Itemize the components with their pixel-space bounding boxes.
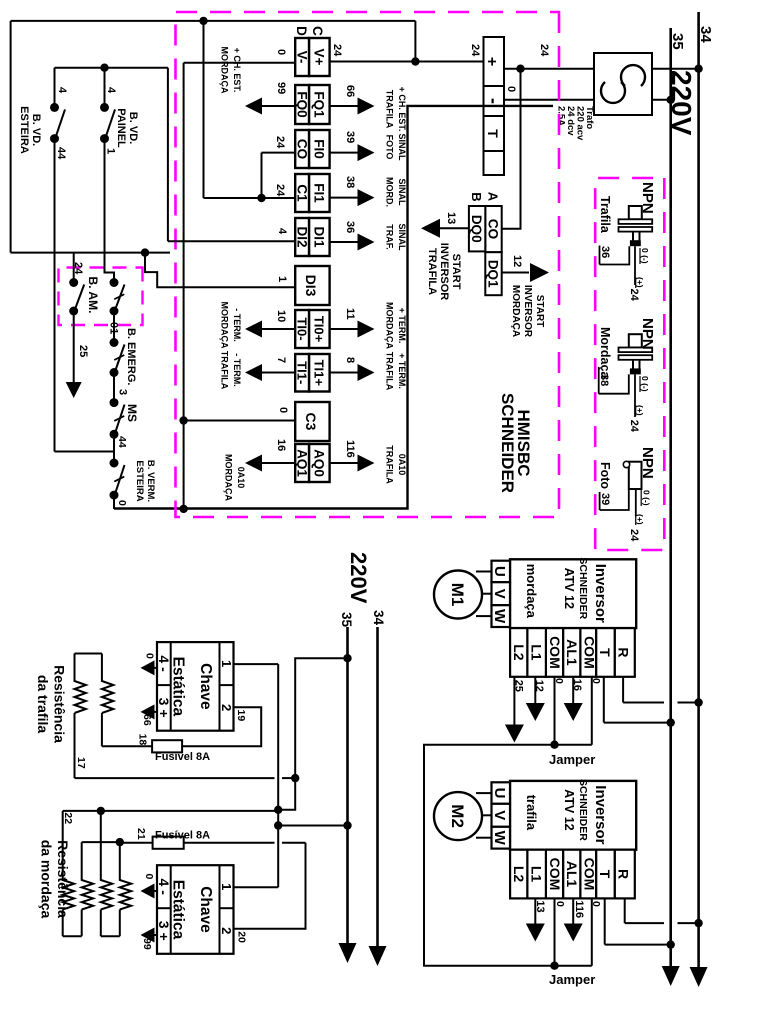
svg-text:4: 4: [56, 87, 68, 94]
svg-text:T: T: [597, 648, 613, 657]
svg-text:17: 17: [75, 757, 87, 769]
wire bus 34 (220V line): [697, 12, 700, 975]
svg-text:TI0+: TI0+: [312, 316, 327, 343]
arrow end bus 34 lower: [369, 946, 387, 966]
fuse F2 Fusivel 8A: [153, 837, 184, 849]
svg-text:0: 0: [554, 901, 566, 907]
svg-text:0: 0: [590, 678, 602, 684]
junction 24 to CO block: [516, 65, 524, 73]
svg-text:ATV 12: ATV 12: [562, 789, 576, 830]
svg-text:TRAFILA: TRAFILA: [385, 352, 395, 391]
svg-text:MORDAÇA: MORDAÇA: [385, 302, 395, 349]
svg-text:da trafila: da trafila: [35, 675, 51, 734]
svg-text:220V: 220V: [346, 552, 371, 604]
svg-text:12: 12: [533, 680, 545, 692]
junction feed on bus 35 lower: [343, 654, 351, 662]
dashed box B.AM: [59, 268, 143, 326]
wire fusivel1 to resistor: [102, 745, 152, 747]
wire DI3 node 1 jog: [145, 253, 295, 288]
svg-text:Fusível 8A: Fusível 8A: [155, 830, 210, 842]
svg-text:1: 1: [105, 148, 117, 154]
svg-text:Estática: Estática: [170, 657, 187, 717]
inverter U1 Schneider ATV12 mordaca: [491, 557, 636, 676]
wire inv1 T riser: [604, 722, 671, 724]
cell FQ0: [295, 85, 309, 124]
svg-text:D: D: [294, 26, 309, 36]
arrow signal 11: [358, 321, 375, 338]
wire 24 to B.AM contact: [73, 253, 75, 283]
resistor R trafila element 1: [75, 654, 86, 714]
wire chave2 pin1 riser: [234, 886, 279, 888]
svg-text:0A10: 0A10: [236, 467, 246, 489]
fuse F1 Fusivel 8A: [152, 740, 182, 752]
motor M2: [434, 792, 492, 840]
svg-text:A: A: [486, 192, 501, 202]
svg-text:DQ1: DQ1: [486, 260, 501, 288]
wire sensor3 to tag 39: [600, 489, 629, 510]
sensor NPN proximity Trafila: [619, 182, 657, 246]
svg-text:+: +: [483, 57, 500, 66]
svg-text:1: 1: [219, 883, 234, 890]
wire chave pin1 common line: [277, 664, 279, 887]
svg-text:24: 24: [331, 44, 343, 57]
arrow start inversor mordaca: [530, 263, 549, 282]
svg-text:SCHNEIDER: SCHNEIDER: [498, 393, 517, 493]
svg-text:Trafila: Trafila: [598, 196, 612, 234]
wire inv2 R riser lower: [625, 922, 664, 924]
wire inv2 L1 13: [534, 898, 536, 924]
solid-state relay Chave Estatica mordaca: [156, 865, 234, 954]
svg-text:44: 44: [55, 147, 67, 160]
arrow 25: [505, 725, 524, 743]
svg-text:1: 1: [276, 276, 288, 282]
svg-text:T: T: [485, 129, 501, 138]
dashed box HMISBC SCHNEIDER area: [176, 12, 560, 517]
svg-text:12: 12: [511, 255, 523, 267]
svg-text:M2: M2: [448, 804, 467, 828]
cell DQ1: [485, 252, 501, 295]
arrow output 3+ of solid-state relay Chave Estatica mordaca: [154, 934, 157, 936]
wire V+ 24 riser to strip: [330, 61, 484, 63]
wire bus 35 lower section: [346, 627, 349, 954]
svg-text:C1: C1: [295, 184, 310, 202]
svg-text:FQ0: FQ0: [295, 91, 310, 117]
svg-text:+ CH. EST.: + CH. EST.: [232, 48, 242, 93]
switch B.AM a: [69, 278, 84, 316]
wire node 4 run: [167, 68, 169, 242]
cell DI2: [295, 218, 309, 256]
svg-text:18: 18: [137, 734, 149, 746]
arrow signal 25: [66, 382, 82, 398]
switch B.AM b: [110, 278, 125, 316]
arrow signal 16: [245, 455, 262, 472]
wire sensor3 signal: [635, 489, 637, 516]
wire inv1 R riser lower: [623, 702, 664, 704]
svg-text:V+: V+: [312, 49, 327, 66]
junction inv1 T on bus 35: [667, 718, 675, 726]
inverter U2 Schneider ATV12 trafila: [491, 779, 636, 898]
svg-text:L1: L1: [528, 644, 544, 661]
wire branch 35b to chave line: [278, 825, 347, 827]
wire C3 to 0V rail: [184, 420, 296, 422]
wire chain end to 0V: [113, 495, 115, 509]
wire bridge m1-m2: [63, 935, 82, 937]
svg-text:U: U: [491, 788, 508, 799]
sensor NPN photo Foto: [623, 447, 656, 489]
svg-text:SINAL: SINAL: [397, 224, 407, 252]
svg-text:(+): (+): [635, 514, 645, 525]
svg-text:ATV 12: ATV 12: [562, 568, 576, 609]
svg-text:AQ1: AQ1: [295, 449, 310, 477]
wire 44 riser: [55, 451, 115, 453]
wire CO to C1 junction: [261, 153, 263, 198]
wire trafo primary/24V to + terminal: [504, 68, 699, 70]
arrow signal 38: [358, 189, 375, 206]
svg-text:24: 24: [628, 529, 640, 542]
svg-text:B. AM.: B. AM.: [86, 277, 100, 314]
wire + CH. EST. MORDAÇA signal 99: [262, 105, 296, 107]
svg-text:0: 0: [553, 678, 565, 684]
svg-text:FQ1: FQ1: [312, 91, 327, 118]
svg-text:24: 24: [274, 136, 286, 149]
junction on bus 35: [667, 96, 675, 104]
wire chave2 pin2 upper: [234, 843, 306, 929]
junction 24 net: [411, 57, 419, 65]
wire + CH. EST. TRAFILA signal 66: [330, 105, 358, 107]
arrow signal 39: [358, 144, 375, 161]
svg-text:99: 99: [141, 938, 153, 950]
wire - TERM. MORDAÇA signal 10: [262, 328, 296, 330]
svg-text:L1: L1: [528, 866, 544, 883]
svg-text:66: 66: [141, 714, 153, 726]
arc transformer winding 2: [601, 82, 625, 103]
cell TI1-: [295, 354, 309, 392]
wire SINAL FOTO signal 39: [330, 152, 358, 154]
switch MS: [110, 398, 125, 439]
wire tag 36: [599, 246, 601, 265]
svg-text:Trafo: Trafo: [584, 106, 595, 129]
svg-text:Estática: Estática: [170, 880, 187, 940]
wire bus 34 lower section: [376, 627, 379, 957]
wire fusivel2 feed upper: [282, 842, 306, 844]
svg-text:0: 0: [505, 86, 517, 92]
svg-text:35: 35: [339, 612, 354, 628]
svg-text:SINAL: SINAL: [397, 134, 407, 162]
arrow signal 7: [245, 364, 262, 381]
wire node 44 to B.VERM: [113, 434, 115, 463]
svg-text:MORDAÇA: MORDAÇA: [220, 302, 230, 349]
arrow end bus 35 lower: [339, 943, 357, 963]
wire 17 riser lower: [75, 777, 275, 779]
wire inv1 AL1 16: [572, 677, 574, 704]
wire node 01: [113, 311, 115, 343]
arrow end of bus 34: [690, 967, 708, 987]
svg-text:10: 10: [275, 310, 287, 322]
svg-text:FI1: FI1: [312, 183, 327, 203]
svg-text:V-: V-: [295, 51, 310, 64]
wire 24 bottom run: [10, 21, 12, 253]
arrow 16: [564, 703, 583, 721]
svg-text:66: 66: [344, 85, 356, 97]
wire inv1 COM bend: [555, 744, 592, 746]
wire DQ0 signal 13: [437, 227, 469, 229]
svg-text:0 (-): 0 (-): [640, 248, 650, 264]
arrow 12: [526, 703, 545, 721]
wire 24 drop: [204, 197, 262, 199]
wire CO 24: [262, 152, 296, 154]
arrow 116: [564, 924, 583, 942]
wire 24 branch to rail: [203, 21, 205, 198]
wire inv1 R: [622, 677, 624, 703]
wire sensor2 to tag 38: [599, 374, 629, 393]
svg-text:3: 3: [117, 389, 129, 395]
svg-text:MS: MS: [125, 404, 139, 422]
junction jamper 2: [550, 962, 558, 970]
svg-text:TRAFILA: TRAFILA: [426, 248, 438, 295]
switch S2 B.VD. PAINEL: [100, 103, 115, 143]
wire tag 38: [598, 367, 600, 394]
svg-text:U: U: [491, 566, 508, 577]
svg-text:TRAFILA: TRAFILA: [220, 351, 230, 390]
svg-text:TI1-: TI1-: [295, 361, 310, 384]
svg-text:B: B: [469, 192, 484, 201]
svg-text:B. VD.: B. VD.: [127, 112, 139, 144]
sensor NPN proximity Mordaca: [619, 318, 657, 374]
wire tag 39: [599, 492, 601, 510]
cell DI3: [295, 266, 329, 305]
wire fusivel2 out: [120, 842, 153, 844]
wire jamper link COM-COM: [424, 745, 555, 966]
svg-text:Jamper: Jamper: [549, 972, 595, 987]
arrow output 4- of solid-state relay Chave Estatica trafila: [154, 667, 157, 669]
wire + TERM. TRAFILA signal 8: [330, 372, 358, 374]
arrow end of bus 35: [662, 966, 680, 986]
wire resistor trafila left bridge: [75, 653, 102, 655]
arrow 13: [526, 924, 545, 942]
switch B. VERM. ESTEIRA: [110, 459, 125, 500]
junction on bus 34: [694, 65, 702, 73]
cell DI1: [309, 218, 330, 256]
svg-text:DI1: DI1: [312, 226, 327, 248]
wire sensor1 signal: [634, 246, 636, 285]
wire inv2 COM bend: [555, 965, 592, 967]
svg-text:Fusível 8A: Fusível 8A: [155, 751, 210, 763]
svg-text:COM: COM: [547, 636, 563, 669]
svg-text:B. VD.: B. VD.: [30, 114, 42, 146]
svg-text:B. VERM.: B. VERM.: [145, 460, 156, 502]
svg-text:0A10: 0A10: [397, 454, 407, 476]
svg-text:44: 44: [116, 436, 128, 448]
wire inv2 AL1 116: [572, 898, 574, 924]
resistor R mordaca element 2: [82, 842, 93, 909]
wire bridge m3-m4: [101, 935, 120, 937]
wire SINAL TRAF. signal 36: [330, 241, 358, 243]
wire DQ1 signal 12: [502, 272, 529, 274]
svg-text:Inversor: Inversor: [592, 785, 609, 844]
svg-text:22: 22: [62, 812, 74, 824]
svg-text:0: 0: [143, 874, 155, 880]
wire inv1 T: [603, 677, 605, 723]
svg-text:COM: COM: [581, 636, 597, 669]
svg-text:ESTEIRA: ESTEIRA: [134, 460, 145, 501]
svg-text:2: 2: [219, 704, 234, 711]
arrow start inversor trafila: [421, 219, 440, 238]
arrow signal 66: [358, 98, 375, 115]
arc transformer winding 1: [621, 65, 645, 86]
cell C1: [295, 174, 309, 212]
wire inv1 L2 25: [513, 677, 515, 725]
svg-text:01: 01: [108, 322, 120, 334]
svg-text:trafila: trafila: [524, 795, 539, 831]
svg-text:24 dcv: 24 dcv: [565, 106, 576, 136]
svg-text:NPN: NPN: [639, 447, 656, 479]
wire 17 riser upper: [282, 777, 295, 779]
wire 0V rail: [183, 63, 185, 509]
svg-text:36: 36: [599, 246, 611, 258]
svg-text:C: C: [310, 26, 325, 36]
svg-text:39: 39: [344, 131, 356, 143]
wire node 4 to switches: [55, 67, 168, 69]
wire fusivel2 feed lower: [184, 842, 275, 844]
svg-text:V: V: [491, 589, 508, 599]
wire R trafila 2 to fusivel: [101, 713, 103, 746]
svg-text:COM: COM: [581, 858, 597, 891]
svg-text:0: 0: [590, 901, 602, 907]
svg-text:AL1: AL1: [564, 639, 580, 666]
svg-text:- TERM.: - TERM.: [232, 308, 242, 342]
junction inv2 R on bus 34: [694, 919, 702, 927]
svg-text:116: 116: [344, 440, 356, 458]
svg-text:+ TERM.: + TERM.: [397, 308, 407, 344]
wire trafo 0V to - terminal: [504, 99, 671, 101]
svg-text:da mordaça: da mordaça: [39, 840, 55, 919]
svg-text:COM: COM: [547, 858, 563, 891]
cell TI1+: [309, 354, 330, 392]
cell V+: [309, 38, 330, 76]
transformer T1 Trafo 220/24: [594, 53, 652, 115]
arrow signal 36: [358, 234, 375, 251]
junction branch on bus 35 lower: [343, 821, 351, 829]
svg-text:4: 4: [105, 87, 117, 94]
wire 24 branch left: [414, 21, 416, 62]
svg-text:34: 34: [697, 26, 714, 43]
svg-text:1: 1: [219, 660, 234, 667]
cell FQ1: [309, 85, 330, 124]
wire inv2 COM lower: [554, 898, 556, 965]
svg-text:0 (-): 0 (-): [640, 376, 650, 392]
wire R trafila 1 to 17: [74, 713, 76, 778]
arrow signal 99: [245, 98, 262, 115]
svg-text:SCHNEIDER: SCHNEIDER: [577, 557, 589, 619]
arrow output 4- of solid-state relay Chave Estatica mordaca: [154, 890, 157, 892]
wire bus 35 (220V line): [669, 28, 672, 972]
svg-text:NPN: NPN: [639, 318, 656, 350]
junction DI3 on 24 riser: [141, 248, 149, 256]
cell AQ0: [309, 444, 330, 482]
wire inv1 COM lower: [554, 677, 556, 745]
svg-text:-: -: [484, 98, 504, 104]
junction 17 on 35b feed: [291, 774, 299, 782]
wire inv2 T riser: [605, 944, 671, 946]
resistor R trafila element 2: [102, 654, 113, 714]
svg-text:TRAF.: TRAF.: [385, 224, 395, 250]
wire - TERM. TRAFILA signal 7: [262, 372, 296, 374]
junction 0V rail end: [179, 505, 187, 513]
cell FI1: [309, 174, 330, 212]
svg-text:M1: M1: [448, 583, 467, 607]
wire 21 to m2: [82, 841, 120, 843]
svg-text:24: 24: [538, 44, 550, 57]
svg-text:21: 21: [135, 828, 147, 840]
svg-text:38: 38: [598, 374, 610, 386]
svg-text:AQ0: AQ0: [312, 449, 327, 477]
svg-text:34: 34: [371, 610, 386, 626]
svg-text:99: 99: [275, 82, 287, 94]
svg-text:13: 13: [445, 212, 457, 224]
junction 21 net: [116, 838, 124, 846]
wire 24 riser to B.AM feed: [11, 252, 170, 254]
svg-text:FOTO: FOTO: [385, 135, 395, 160]
svg-text:START: START: [450, 254, 462, 290]
svg-text:CO: CO: [486, 219, 501, 239]
solid-state relay Chave Estatica trafila: [156, 642, 234, 731]
svg-text:39: 39: [599, 493, 611, 505]
junction C3 on 0V rail: [179, 416, 187, 424]
svg-text:36: 36: [344, 221, 356, 233]
svg-text:NPN: NPN: [639, 182, 656, 214]
svg-text:0: 0: [275, 49, 287, 55]
wire C1 24: [262, 197, 296, 199]
svg-text:INVERSOR: INVERSOR: [522, 285, 533, 338]
svg-text:25: 25: [513, 680, 525, 692]
wire inv2 R: [624, 898, 626, 923]
svg-text:Foto: Foto: [598, 462, 612, 489]
switch B. EMERG.: [110, 338, 125, 377]
svg-text:R: R: [616, 647, 632, 657]
arrow output 3+ of solid-state relay Chave Estatica trafila: [154, 711, 157, 713]
arrow signal 116: [358, 455, 375, 472]
svg-text:38: 38: [344, 176, 356, 188]
svg-text:B. EMERG.: B. EMERG.: [125, 328, 137, 385]
svg-text:MORDAÇA: MORDAÇA: [224, 454, 234, 501]
svg-text:MORDAÇA: MORDAÇA: [220, 47, 230, 94]
svg-text:13: 13: [534, 900, 546, 912]
wire + TERM. MORDAÇA signal 11: [330, 328, 358, 330]
svg-text:(+): (+): [635, 277, 645, 288]
svg-text:FI0: FI0: [312, 139, 327, 159]
cell DQ0: [469, 206, 485, 251]
svg-text:MORD.: MORD.: [385, 177, 395, 207]
svg-text:4: 4: [276, 228, 288, 235]
wire SINAL MORD. signal 38: [330, 197, 358, 199]
junction 4-way chave line: [274, 806, 282, 814]
svg-text:0 (-): 0 (-): [642, 490, 652, 506]
svg-text:25: 25: [77, 345, 89, 357]
svg-text:- TERM.: - TERM.: [232, 353, 242, 387]
cell AQ1: [295, 444, 309, 482]
svg-text:20: 20: [236, 931, 248, 943]
switch S1 B.VD. ESTEIRA: [50, 103, 65, 143]
svg-text:DI2: DI2: [295, 226, 310, 247]
svg-text:Chave: Chave: [197, 663, 214, 710]
arrow signal 8: [358, 364, 375, 381]
svg-text:L2: L2: [511, 644, 527, 661]
wire sensor1 to tag 36: [600, 246, 630, 264]
junction 22 to m3: [97, 807, 105, 815]
svg-text:T: T: [597, 870, 613, 879]
wire node 44 run: [54, 139, 56, 452]
svg-text:24: 24: [628, 420, 640, 433]
